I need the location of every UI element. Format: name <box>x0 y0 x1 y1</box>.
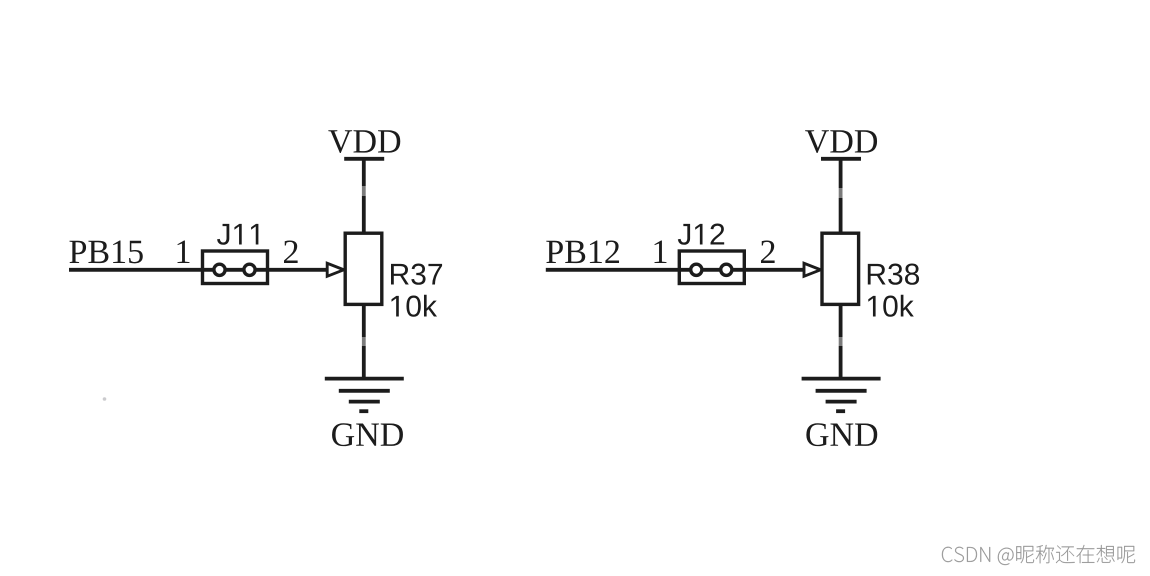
stray speck artifact <box>103 397 107 401</box>
wire VDD to R37 top <box>362 159 366 233</box>
component label J11 <box>217 224 258 245</box>
net label PB15 <box>70 241 143 264</box>
ground symbol <box>325 379 404 412</box>
wire R37 bottom to ground <box>362 304 366 380</box>
value label 10k of R37 <box>392 295 438 317</box>
power symbol VDD bar <box>821 157 861 161</box>
wire J12 pin 2 to R38 wiper <box>744 268 805 272</box>
node VDD label <box>328 130 400 153</box>
faint watermark streak over right VDD wire <box>836 188 846 198</box>
faint watermark streak over right GND wire <box>836 337 846 346</box>
power symbol VDD bar <box>344 157 384 161</box>
pad 2 of J12 <box>721 264 732 275</box>
jumper J11 body <box>203 251 268 284</box>
wiper arrow into R38 <box>804 263 821 276</box>
wiper arrow into R37 <box>327 263 344 276</box>
pad 1 of J11 <box>214 264 225 275</box>
node GND label <box>332 423 403 446</box>
ground symbol <box>802 379 881 412</box>
resistor R37 body <box>345 233 382 304</box>
component label R38 <box>868 264 919 285</box>
pad 1 of J12 <box>691 264 702 275</box>
wire net PB12 to jumper J12 pin 1 <box>546 268 680 272</box>
component label R37 <box>391 264 442 285</box>
faint watermark streak over left GND wire <box>359 337 369 346</box>
faint watermark streak over left VDD wire <box>359 186 369 196</box>
node GND label <box>806 423 877 446</box>
pad 2 of J11 <box>244 264 255 275</box>
net label PB12 <box>546 240 619 263</box>
pin number 2 of J11 <box>284 240 298 263</box>
wire VDD to R38 top <box>839 159 843 233</box>
wire net PB15 to jumper J11 pin 1 <box>69 268 203 272</box>
pin number 1 of J11 <box>178 241 190 263</box>
pin number 2 of J12 <box>761 240 775 263</box>
component label J12 <box>678 224 724 245</box>
pin number 1 of J12 <box>655 241 667 263</box>
node VDD label <box>805 130 877 153</box>
value label 10k of R38 <box>868 295 914 317</box>
jumper J12 body <box>679 251 744 284</box>
resistor R38 body <box>822 233 859 304</box>
wire J11 pin 2 to R37 wiper <box>268 268 329 272</box>
watermark CSDN @nickname <box>942 545 1136 566</box>
wire R38 bottom to ground <box>839 304 843 380</box>
